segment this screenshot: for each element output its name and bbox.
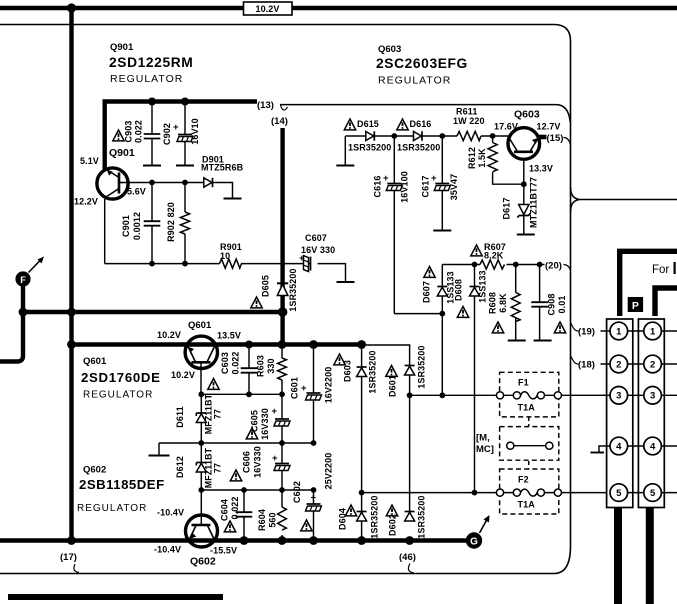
warning triangle D615 (344, 119, 355, 130)
capacitor C605 (272, 394, 291, 443)
capacitor C908 (531, 265, 548, 340)
capacitor C901 (144, 183, 161, 264)
svg-text:1SR35200: 1SR35200 (370, 495, 380, 538)
svg-text:+: + (301, 383, 307, 394)
svg-text:C605: C605 (250, 410, 260, 432)
wire: F2 out to connector (562, 492, 610, 494)
svg-text:1SR35200: 1SR35200 (417, 495, 427, 538)
svg-text:D608: D608 (454, 279, 464, 301)
junction R603 bus (278, 340, 287, 349)
label C604 0.022 (220, 496, 241, 520)
wire: F stub down (21, 286, 25, 312)
pin 4 right (644, 437, 662, 455)
transistor Q901 (97, 168, 128, 199)
svg-text:6.8K: 6.8K (498, 293, 508, 313)
label R611 1W220 (453, 107, 485, 127)
ground C908 (534, 340, 552, 342)
resistor R607 (480, 260, 505, 269)
ground D901 (224, 198, 242, 200)
wire: F branch to left edge (0, 312, 23, 362)
node G (466, 515, 490, 549)
dashed link MC-F2 (528, 461, 530, 469)
curl under (46) (408, 564, 414, 574)
junction C901 bottom (149, 261, 155, 267)
fuse F1 element (496, 392, 561, 399)
junction C603 bus (245, 341, 253, 349)
MC plug element (507, 442, 553, 449)
junction rail B left (198, 440, 204, 446)
svg-text:MTZ5R6B: MTZ5R6B (201, 163, 244, 173)
label R608 6.8K (488, 292, 509, 314)
svg-text:13.5V: 13.5V (217, 331, 241, 341)
border: right branch line y=200 (571, 187, 677, 212)
resistor R902 (180, 183, 189, 264)
warning triangle C606 (230, 470, 241, 481)
junction bottom D602 (405, 536, 414, 545)
capacitor C607 (299, 253, 311, 272)
wire curl at (13)/(14) (281, 105, 288, 110)
svg-text:10.2V: 10.2V (255, 4, 279, 14)
junction D616 left (391, 133, 397, 139)
svg-text:10.2V: 10.2V (157, 330, 181, 340)
label C901 0.0012 (121, 212, 142, 240)
diode D603 (357, 345, 367, 493)
svg-text:16V330: 16V330 (253, 446, 263, 478)
svg-text:(15): (15) (547, 133, 564, 144)
svg-text:REGULATOR: REGULATOR (83, 390, 153, 401)
connector thick feed left (620, 251, 677, 316)
resistor R604 (278, 490, 287, 541)
junction C901 top (149, 180, 155, 186)
wire: F2 row rail (362, 492, 497, 494)
svg-text:C902: C902 (162, 123, 172, 145)
junction rail C C604 (241, 487, 247, 493)
svg-text:16V 330: 16V 330 (301, 245, 335, 255)
warning triangle R608 (492, 322, 503, 333)
svg-text:0.01: 0.01 (557, 296, 567, 314)
label Q901 block (109, 42, 193, 85)
svg-text:D604: D604 (338, 508, 348, 530)
svg-text:+: + (272, 453, 278, 464)
junction bottom D604 (357, 536, 366, 545)
junction D607/C616 wire (439, 311, 445, 317)
wire: Q603 base down (523, 160, 525, 234)
junction rail C left (198, 487, 204, 493)
svg-text:16V330: 16V330 (260, 408, 270, 440)
wire: Q901 base line (121, 182, 204, 184)
ground R608 (508, 340, 526, 342)
warning triangle C605 (246, 428, 257, 439)
svg-text:-15.5V: -15.5V (210, 546, 237, 556)
warning triangle C903 (113, 130, 124, 141)
resistor R603 (278, 345, 287, 395)
wire: bottom -15.5V bus (0, 538, 467, 543)
svg-text:330: 330 (266, 358, 276, 373)
MC plug box (500, 427, 559, 461)
label C605 16V330 (250, 408, 271, 440)
svg-text:T1A: T1A (518, 500, 536, 510)
svg-text:Q603: Q603 (514, 109, 540, 121)
transistor Q601 (185, 336, 217, 368)
svg-text:For: For (652, 264, 669, 276)
junction F bus at D605 line (278, 307, 288, 317)
label R901 10 (220, 242, 242, 261)
junction bus at x71 (67, 340, 76, 349)
svg-text:5: 5 (650, 488, 656, 499)
svg-text:13.3V: 13.3V (529, 164, 553, 174)
svg-text:2SD1225RM: 2SD1225RM (109, 55, 193, 70)
svg-text:12.7V: 12.7V (537, 122, 561, 132)
warning triangle D607 (424, 267, 435, 278)
svg-text:C607: C607 (305, 233, 327, 243)
svg-text:C601: C601 (290, 377, 300, 399)
label R607 8.2K (484, 242, 506, 261)
wire: C616 bottom to D607 column (394, 313, 442, 315)
svg-text:-10.4V: -10.4V (154, 545, 181, 555)
pin 2 right (644, 355, 662, 373)
wire: D608 column (474, 265, 476, 493)
capacitor C606 (272, 443, 290, 490)
wire: D615/D616/R611 line (345, 135, 508, 137)
diode D604 (357, 493, 367, 541)
transistor Q602 (186, 515, 218, 547)
svg-text:8.2K: 8.2K (484, 251, 504, 261)
capacitor C616 (383, 136, 402, 314)
svg-text:D602: D602 (388, 514, 398, 536)
svg-text:1.5K: 1.5K (477, 148, 487, 168)
svg-text:4: 4 (650, 441, 656, 452)
border: inner line from (13) (280, 105, 570, 122)
svg-text:C903: C903 (124, 121, 134, 143)
svg-text:REGULATOR: REGULATOR (77, 503, 147, 514)
diode D612 (196, 443, 206, 525)
wire: rail A right (fuse F1 feed) (410, 394, 497, 396)
svg-text:2SB1185DEF: 2SB1185DEF (79, 477, 165, 492)
svg-text:35V47: 35V47 (449, 174, 459, 201)
junction F2 rail D608 (472, 490, 478, 496)
pin 5 right (644, 484, 662, 502)
wire: F bus 10.2V horizontal (23, 310, 283, 314)
fuse F1 box (500, 372, 559, 417)
label D901 (201, 155, 244, 173)
label 10.2V boxed on top bus (244, 2, 293, 15)
svg-text:560: 560 (268, 512, 278, 527)
warning triangle D604 (345, 505, 356, 516)
capacitor C603 (241, 345, 258, 395)
diode D602 (405, 512, 415, 522)
junction C903 on bus (148, 98, 156, 106)
svg-text:G: G (470, 536, 478, 547)
svg-text:16V100: 16V100 (400, 171, 410, 203)
svg-text:1: 1 (650, 326, 656, 337)
svg-text:0.022: 0.022 (230, 496, 240, 519)
svg-text:REGULATOR: REGULATOR (110, 73, 183, 85)
fuse F2 box (500, 469, 559, 514)
svg-text:25V2200: 25V2200 (324, 453, 334, 490)
svg-text:(18): (18) (578, 360, 595, 371)
resistor R901 (220, 259, 242, 268)
wire: Q901 emitter lead (104, 199, 106, 264)
svg-text:1SR35200: 1SR35200 (397, 143, 440, 153)
wire: rail B center (159, 442, 314, 444)
svg-text:(13): (13) (257, 100, 274, 111)
pin 1 right (644, 322, 662, 340)
svg-text:1SR35200: 1SR35200 (417, 345, 427, 388)
svg-text:R902 820: R902 820 (166, 202, 176, 242)
svg-text:10: 10 (220, 251, 230, 261)
svg-text:10.2V: 10.2V (171, 370, 195, 380)
junction R611 left (439, 133, 445, 139)
connector bottom bar right (646, 508, 654, 604)
svg-text:(19): (19) (578, 327, 595, 338)
junction C902 on bus (181, 98, 189, 106)
svg-text:R604: R604 (257, 509, 267, 531)
svg-text:2: 2 (616, 359, 621, 370)
svg-text:D612: D612 (175, 456, 185, 478)
junction rail A right at D601 (407, 392, 413, 398)
junction bottom C602 (309, 536, 318, 545)
wire row1 (601, 330, 677, 332)
svg-text:0.0012: 0.0012 (132, 212, 142, 240)
wire: bottom-left thick partial bar (8, 594, 223, 600)
wire: rail A left (201, 393, 282, 395)
label C902 16V10 (162, 118, 200, 145)
pin 1 left (610, 322, 628, 340)
svg-text:3: 3 (650, 391, 655, 402)
warning triangle D605 (251, 297, 262, 308)
svg-text:Q601: Q601 (188, 320, 212, 331)
warning triangle C604 (224, 521, 235, 532)
svg-text:+: + (311, 493, 317, 504)
capacitor C601 (301, 345, 322, 444)
label MFZ11BT 77 for D612 (204, 447, 223, 488)
resistor R612 (488, 136, 524, 184)
svg-text:5.1V: 5.1V (80, 156, 99, 166)
svg-text:T1A: T1A (518, 403, 536, 413)
svg-text:1: 1 (616, 326, 622, 337)
junction rail A R603 (279, 391, 285, 397)
junction rail B mid (279, 440, 285, 446)
wire: rail C (201, 489, 313, 491)
svg-text:1SS133: 1SS133 (478, 270, 488, 303)
wire row2 (601, 363, 677, 365)
svg-text:R611: R611 (456, 107, 477, 117)
junction R902 bottom (182, 261, 188, 267)
svg-text:D615: D615 (357, 119, 379, 129)
label C903 0.022 (124, 120, 144, 143)
junction rail A at base (198, 391, 204, 397)
connector box left (607, 319, 633, 508)
svg-text:0.022: 0.022 (134, 120, 144, 143)
wire: Q901 collector lead (102, 102, 106, 170)
diode D608 (470, 287, 480, 297)
junction bottom x71 (67, 536, 76, 545)
svg-text:2SC2603EFG: 2SC2603EFG (376, 56, 468, 71)
curl under (17) (74, 564, 79, 573)
fuse F2 element (496, 489, 561, 496)
pin 4 left (610, 437, 628, 455)
wire: Q901 collector bus to (13) (103, 99, 258, 103)
svg-text:+: + (173, 122, 179, 133)
junction rail C C602 (311, 487, 317, 493)
svg-text:5.6V: 5.6V (127, 187, 146, 197)
svg-text:C908: C908 (547, 294, 557, 316)
junction bottom C604 (240, 536, 249, 545)
warning triangle C603 (208, 379, 219, 390)
junction D603 bus (357, 340, 366, 349)
label P box (628, 297, 643, 312)
wire: left thick vertical rail x=71 (69, 8, 73, 541)
label (19) (571, 323, 595, 338)
svg-text:[M,: [M, (476, 433, 490, 444)
label C607 16V330 (301, 233, 335, 255)
svg-text:C617: C617 (421, 176, 431, 198)
svg-text:77: 77 (213, 463, 223, 473)
svg-text:17.6V: 17.6V (494, 122, 518, 132)
capacitor C602 (306, 490, 322, 541)
wire: thin bus extension to D601 (362, 345, 410, 365)
capacitor C617 (431, 136, 450, 230)
wire: Q601 collector bus 13.5V (72, 342, 363, 346)
pin 3 right (644, 387, 662, 405)
svg-text:C602: C602 (292, 481, 302, 503)
svg-text:1SR35200: 1SR35200 (368, 350, 378, 393)
svg-text:MTZ11BT77: MTZ11BT77 (529, 177, 539, 228)
pin 3 left (610, 387, 628, 405)
node F (15, 257, 44, 287)
svg-text:+: + (383, 173, 389, 184)
junction R902 top (182, 180, 188, 186)
ground row4 (591, 446, 611, 453)
svg-text:2SD1760DE: 2SD1760DE (81, 370, 161, 385)
junction R608 top (513, 262, 519, 268)
label Q602 block (77, 465, 165, 515)
label C908 0.01 (547, 294, 568, 316)
svg-text:0.022: 0.022 (231, 351, 241, 374)
label Q601 block (81, 356, 195, 401)
label C606 16V330 (242, 446, 263, 478)
wire: left end drop to ground (344, 136, 346, 165)
svg-text:1SR35200: 1SR35200 (288, 268, 298, 311)
svg-text:1W 220: 1W 220 (453, 116, 485, 126)
svg-text:C604: C604 (220, 499, 230, 521)
junction R612 top (490, 133, 496, 139)
svg-text:D617: D617 (502, 198, 512, 220)
svg-text:D603: D603 (343, 360, 353, 382)
wire: Q601 base lead down (200, 364, 202, 395)
svg-text:12.2V: 12.2V (74, 197, 98, 207)
svg-text:D607: D607 (422, 281, 432, 303)
svg-text:(20): (20) (545, 261, 562, 272)
svg-text:C603: C603 (220, 352, 230, 374)
pin 2 left (610, 355, 628, 373)
svg-text:77: 77 (213, 409, 223, 419)
svg-text:Q602: Q602 (190, 556, 216, 568)
diode D615 (366, 131, 375, 140)
pin 5 left (610, 484, 628, 502)
label C603 0.022 (220, 351, 241, 374)
partial glyph at edge (674, 262, 676, 274)
wire: D607 column (441, 265, 443, 396)
resistor R608 (511, 265, 520, 340)
warning triangle D608 (457, 307, 468, 318)
transistor Q603 (508, 128, 540, 160)
junction C601 bus (309, 340, 318, 349)
diode D605 (277, 283, 288, 295)
ground C607 (337, 281, 355, 283)
svg-text:REGULATOR: REGULATOR (378, 75, 451, 87)
svg-text:Q602: Q602 (83, 465, 106, 476)
svg-text:Q901: Q901 (109, 147, 135, 159)
svg-text:-10.4V: -10.4V (157, 508, 184, 518)
svg-text:D611: D611 (175, 406, 185, 427)
wire: emitter bottom run (105, 264, 346, 281)
svg-text:F2: F2 (518, 475, 529, 485)
warning triangle D601 (386, 366, 397, 377)
junction base/R612 (521, 181, 527, 187)
connector bottom bar left (614, 508, 622, 604)
svg-text:P: P (632, 300, 639, 312)
junction C908 top (537, 262, 543, 268)
label R603 330 (256, 355, 277, 377)
svg-text:3: 3 (616, 391, 621, 402)
svg-text:C606: C606 (242, 451, 252, 473)
svg-text:Q603: Q603 (378, 44, 401, 55)
svg-text:16V10: 16V10 (190, 118, 200, 145)
warning triangle C602 (301, 520, 312, 531)
label MFZ11BT 77 for D611 (204, 393, 223, 434)
svg-text:(17): (17) (60, 552, 77, 563)
diode D611 (196, 394, 206, 443)
wire: top 10.2V bus (0, 6, 677, 11)
svg-text:1SR35200: 1SR35200 (348, 143, 391, 153)
wire: D901 cathode to ground (213, 183, 233, 198)
svg-text:F1: F1 (518, 378, 529, 388)
capacitor C903 (143, 102, 161, 166)
border: outer section outline (0, 25, 571, 574)
wire row3 (601, 394, 677, 396)
diode D607 (437, 287, 447, 297)
node junction on top bus (67, 3, 76, 12)
ground D617 (517, 234, 535, 236)
diode D601 (405, 366, 415, 512)
svg-text:R612: R612 (467, 147, 477, 169)
connector box right (638, 319, 664, 508)
svg-text:F: F (20, 275, 26, 285)
label R612 1.5K (467, 147, 487, 169)
warning triangle R607 (471, 245, 482, 256)
svg-text:(14): (14) (271, 116, 288, 127)
svg-text:Q901: Q901 (110, 42, 134, 53)
svg-text:(46): (46) (399, 552, 416, 563)
warning triangle D602 (386, 505, 397, 516)
junction rail A C603 (246, 391, 252, 397)
junction R607 D608 (472, 262, 478, 268)
svg-text:R608: R608 (488, 292, 498, 314)
warning triangle C908 (554, 322, 565, 333)
diode D616 (414, 131, 423, 140)
zener D617 (517, 205, 530, 218)
diode D901 MTZ5R6B (204, 178, 213, 187)
curl (15) to border (564, 138, 571, 145)
svg-text:C616: C616 (373, 176, 383, 198)
svg-text:2: 2 (650, 359, 655, 370)
svg-text:Q601: Q601 (83, 356, 107, 367)
svg-text:C901: C901 (121, 215, 131, 237)
wire: thick (14) line down to bus (280, 128, 284, 345)
svg-text:16V2200: 16V2200 (324, 367, 334, 404)
curl (20) to border (564, 265, 571, 271)
